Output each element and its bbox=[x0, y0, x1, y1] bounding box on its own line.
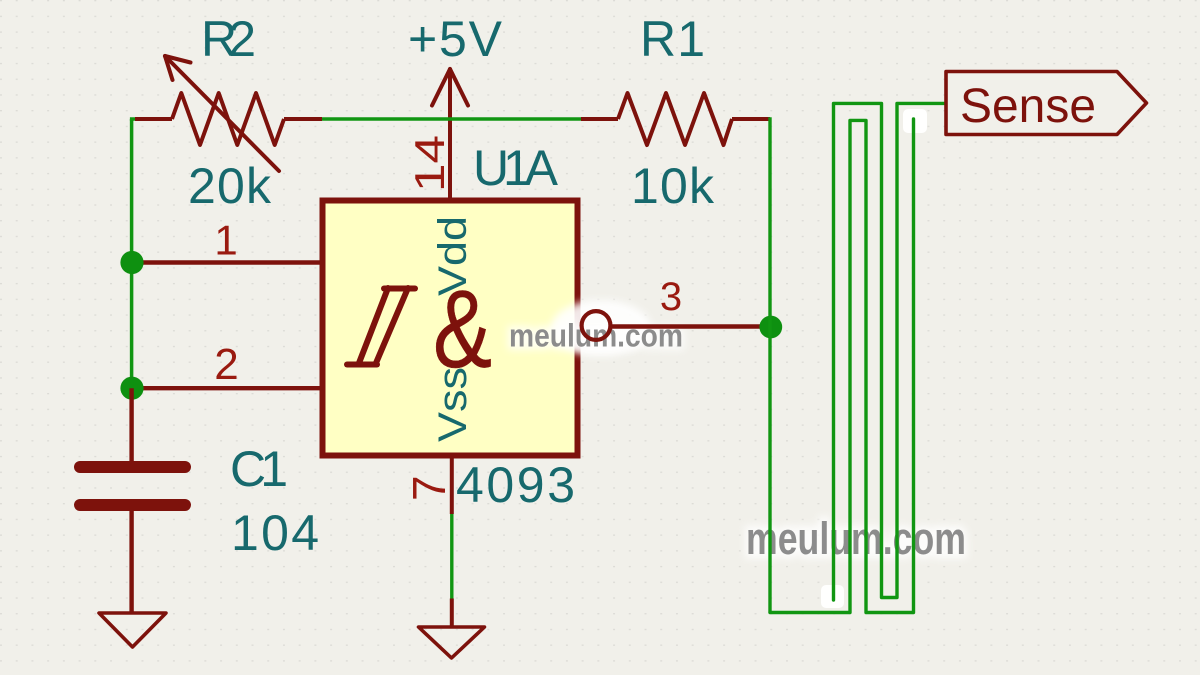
resistor R1 pin left bbox=[581, 117, 618, 121]
wire node3 vertical (green) bbox=[768, 117, 771, 612]
pin 7 stub (red) bbox=[450, 455, 454, 514]
capacitor C1 pin bottom bbox=[129, 509, 133, 613]
wire middle top (green) bbox=[322, 117, 581, 120]
svg-text:meulum.com: meulum.com bbox=[746, 513, 966, 564]
gate U1A body (4093 NAND) bbox=[323, 201, 578, 456]
resistor R2 pin right bbox=[284, 117, 322, 121]
ground symbol left bbox=[99, 613, 166, 647]
svg-text:C1: C1 bbox=[230, 441, 288, 497]
resistor R2 body (zigzag) bbox=[172, 93, 284, 145]
svg-text:20k: 20k bbox=[188, 158, 272, 214]
ground symbol right bbox=[419, 627, 485, 658]
svg-text:2: 2 bbox=[214, 340, 238, 389]
watermark blob top bbox=[903, 109, 927, 133]
touch pad comb B bbox=[834, 103, 945, 600]
svg-text:14: 14 bbox=[406, 135, 453, 192]
capacitor C1 pin top bbox=[129, 388, 133, 463]
watermark text center bbox=[509, 318, 683, 354]
pin 1 wire bbox=[132, 260, 324, 264]
capacitor C1 plate bottom bbox=[80, 499, 185, 511]
watermark blob bottom bbox=[821, 585, 844, 608]
wire horizontal top-left (green, +5V net) bbox=[132, 119, 147, 121]
svg-text:10k: 10k bbox=[631, 158, 715, 214]
resistor R1 pin right bbox=[732, 117, 770, 121]
ground stem right bbox=[450, 599, 454, 628]
resistor R1 body (zigzag) bbox=[618, 93, 732, 145]
capacitor C1 plate top bbox=[80, 461, 185, 473]
svg-text:Vdd: Vdd bbox=[431, 216, 475, 296]
svg-text:7: 7 bbox=[403, 475, 455, 501]
pin 3 wire bbox=[610, 324, 771, 328]
junction node pins 2 bbox=[120, 377, 143, 400]
output bubble pin 3 bbox=[582, 311, 611, 340]
svg-text:104: 104 bbox=[231, 505, 319, 561]
svg-text:Vss: Vss bbox=[431, 367, 475, 442]
resistor R2 pin left bbox=[135, 117, 172, 121]
svg-text:Sense: Sense bbox=[960, 80, 1096, 133]
svg-text:U1A: U1A bbox=[473, 140, 559, 196]
svg-text:3: 3 bbox=[660, 275, 682, 319]
svg-text:1: 1 bbox=[214, 217, 237, 264]
watermark text bottom bbox=[746, 513, 966, 564]
svg-text:R2: R2 bbox=[201, 11, 256, 67]
touch pad comb A bbox=[770, 119, 914, 613]
power +5V symbol bbox=[432, 69, 468, 200]
pin 2 wire bbox=[132, 386, 324, 390]
svg-text:R1: R1 bbox=[640, 11, 705, 67]
schmitt trigger mark bbox=[347, 288, 415, 365]
wire pin7 to ground (green) bbox=[450, 514, 453, 599]
wire left vertical (green) bbox=[130, 119, 134, 388]
junction node 3 bbox=[759, 316, 782, 339]
svg-text:meulum.com: meulum.com bbox=[509, 318, 683, 354]
junction node pins 1 bbox=[120, 251, 143, 274]
svg-text:+5V: +5V bbox=[408, 11, 503, 67]
watermark glow center bbox=[551, 300, 651, 356]
potentiometer R2 arrow bbox=[165, 56, 279, 171]
hierarchical label Sense outline bbox=[946, 72, 1147, 135]
